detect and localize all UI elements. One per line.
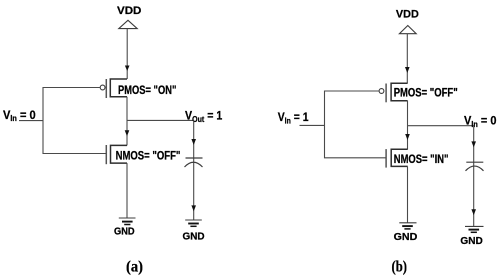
svg-text:NMOS= "IN": NMOS= "IN" [394,154,449,166]
wire VDD to PMOS source (a) [126,29,128,79]
svg-text:VDD: VDD [396,9,419,21]
wire output to capacitor (a) [193,120,195,219]
svg-text:VDD: VDD [117,5,141,17]
wire Vin stub (b) [300,124,325,126]
wire input column (a) [42,87,44,154]
svg-text:GND: GND [183,232,205,243]
svg-text:VIn = 0: VIn = 0 [3,108,36,123]
svg-text:(b): (b) [392,259,408,276]
wire NMOS source to ground (b) [407,166,409,222]
wire PMOS drain to NMOS drain (b) [407,101,409,150]
wire PMOS drain to NMOS drain (a) [126,97,128,146]
ground symbol (a) left [119,218,136,225]
svg-text:GND: GND [394,232,418,243]
ground symbol (b) under capacitor [465,226,484,232]
wire output node (a) [127,119,194,121]
wire output node (b) [408,125,474,127]
transistor PMOS (b) [379,83,408,102]
capacitor CL (a) [185,158,203,167]
ground symbol (b) left [399,223,416,229]
transistor NMOS (a) [106,145,127,164]
svg-text:PMOS= "ON": PMOS= "ON" [118,85,176,97]
power symbol VDD (b) [399,26,416,34]
svg-text:(a): (a) [126,259,143,276]
transistor PMOS U1 (a) [100,79,127,98]
svg-text:VIn = 0: VIn = 0 [464,113,497,128]
wire VDD to PMOS source (b) [406,34,408,83]
wire PMOS gate (a) [43,87,100,89]
svg-text:VIn = 1: VIn = 1 [278,110,309,125]
svg-text:GND: GND [460,236,482,247]
wire NMOS gate (b) [325,157,387,159]
wire input column (b) [324,91,326,159]
svg-text:VOut = 1: VOut = 1 [185,108,222,123]
svg-text:NMOS= "OFF": NMOS= "OFF" [116,150,181,162]
transistor NMOS (b) [386,149,408,168]
wire output to capacitor (b) [473,126,475,227]
svg-text:GND: GND [114,227,135,238]
wire NMOS source to ground (a) [126,163,128,218]
power symbol VDD (a) [119,20,137,28]
wire Vin stub (a) [19,120,43,122]
ground symbol (a) under capacitor [185,220,202,226]
wire NMOS gate (a) [43,153,106,155]
svg-text:PMOS= "OFF": PMOS= "OFF" [394,88,458,100]
capacitor CL (b) [466,162,484,171]
wire PMOS gate (b) [325,90,380,92]
